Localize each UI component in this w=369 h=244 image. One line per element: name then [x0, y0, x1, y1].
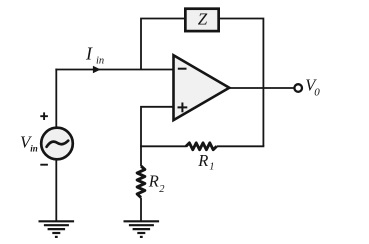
svg-text:R: R	[148, 172, 159, 191]
current arrow Iin	[93, 66, 101, 74]
wire: R1 right lead	[217, 145, 265, 147]
wire: R2 to ground	[140, 198, 142, 221]
ground (below Vin)	[39, 221, 75, 237]
svg-text:I: I	[85, 44, 93, 64]
svg-text:R: R	[197, 151, 208, 170]
wire: Z box right to top-right corner, down to R1	[219, 19, 263, 147]
op-amp U1	[174, 55, 230, 120]
wire: node down to R2	[140, 146, 142, 167]
polarity minus (Vin)	[40, 164, 48, 166]
wire: Vin bottom to ground	[55, 160, 57, 221]
wire: junction up to Z box left	[141, 19, 185, 70]
svg-text:1: 1	[209, 162, 214, 173]
voltage source Vin	[41, 128, 73, 160]
svg-text:Z: Z	[198, 10, 208, 29]
svg-text:in: in	[30, 144, 38, 154]
label Vo	[305, 75, 320, 98]
wire: non-inverting input to left node, down to R1 level	[141, 107, 174, 147]
wire: R1 left lead	[140, 145, 186, 147]
ground (below R2)	[124, 221, 160, 237]
wire: op-amp output to Vo terminal	[229, 87, 294, 89]
label Vin	[20, 132, 38, 153]
wire: Iin horizontal from corner to op-amp inverting input	[55, 69, 173, 71]
wire: left vertical from Iin corner down to Vin source top	[55, 69, 57, 127]
resistor R2	[137, 166, 165, 198]
impedance Z	[185, 9, 218, 31]
svg-text:2: 2	[159, 184, 165, 195]
svg-text:0: 0	[314, 87, 320, 99]
label Iin	[85, 44, 104, 67]
polarity plus (Vin)	[40, 112, 48, 120]
resistor R1	[186, 143, 217, 173]
node Vo terminal	[294, 84, 302, 92]
svg-text:in: in	[96, 56, 104, 67]
